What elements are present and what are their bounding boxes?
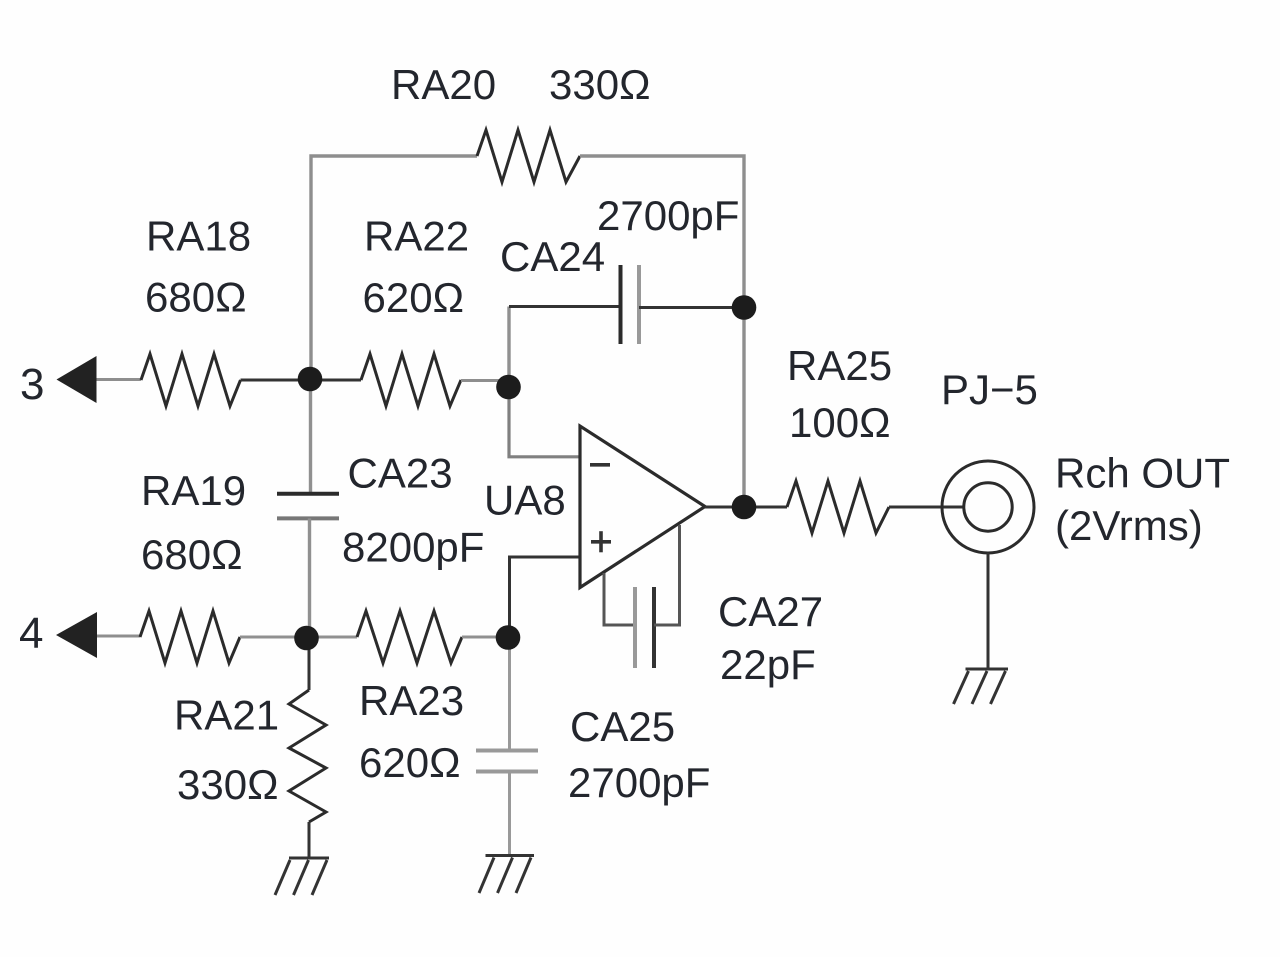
- wire RA21 to ground: [308, 822, 311, 858]
- node D junction dot: [496, 625, 521, 650]
- wire top feedback left segment: [311, 156, 477, 379]
- svg-text:330Ω: 330Ω: [549, 61, 650, 108]
- jack PJ-5 inner ring: [964, 483, 1012, 531]
- capacitor CA23 bottom plate: [277, 516, 339, 520]
- svg-text:680Ω: 680Ω: [141, 531, 242, 578]
- resistor RA21 vertical: [289, 690, 326, 822]
- wire node C to RA23: [307, 636, 357, 639]
- wire jack to ground: [987, 553, 990, 669]
- svg-text:2700pF: 2700pF: [568, 759, 710, 806]
- wire CA24 right lead to node F: [639, 306, 744, 309]
- node F junction dot: [732, 295, 757, 320]
- svg-text:RA22: RA22: [364, 213, 469, 260]
- ground symbol CA25: [479, 856, 534, 894]
- svg-text:RA18: RA18: [146, 213, 251, 260]
- resistor RA20: [477, 130, 580, 182]
- svg-text:8200pF: 8200pF: [342, 524, 484, 571]
- svg-text:(2Vrms): (2Vrms): [1055, 502, 1203, 549]
- capacitor CA27 left lead: [604, 573, 635, 625]
- wire top feedback right segment: [580, 156, 744, 307]
- wire node B up to CA24: [507, 307, 510, 388]
- svg-text:CA24: CA24: [500, 233, 605, 280]
- wire RA22 to node B: [461, 379, 509, 382]
- wire arrow3 to RA18: [97, 378, 142, 381]
- wire node F down to output node: [742, 308, 745, 508]
- terminal arrow 3: [57, 356, 97, 403]
- svg-text:CA27: CA27: [718, 588, 823, 635]
- node A junction dot: [298, 367, 323, 392]
- resistor RA25: [787, 481, 889, 533]
- capacitor CA24 left plate: [619, 265, 623, 344]
- capacitor CA27 right lead: [654, 525, 680, 625]
- svg-text:22pF: 22pF: [720, 641, 816, 688]
- wire node D up to plus input: [510, 557, 581, 637]
- svg-text:RA20: RA20: [391, 61, 496, 108]
- resistor RA19: [140, 611, 240, 663]
- wire op-amp output to RA25: [705, 506, 787, 509]
- op-amp plus sign: [591, 531, 611, 552]
- svg-text:CA25: CA25: [570, 703, 675, 750]
- svg-text:680Ω: 680Ω: [145, 274, 246, 321]
- node B junction dot: [496, 375, 521, 400]
- node E output junction dot: [732, 495, 757, 520]
- resistor RA22: [361, 354, 461, 406]
- svg-text:PJ−5: PJ−5: [941, 366, 1038, 413]
- svg-text:CA23: CA23: [348, 450, 453, 497]
- resistor RA23: [357, 611, 462, 663]
- svg-text:UA8: UA8: [484, 477, 566, 524]
- terminal arrow 4: [56, 612, 97, 658]
- capacitor CA24 right plate: [637, 265, 641, 344]
- svg-text:RA19: RA19: [141, 467, 246, 514]
- svg-text:4: 4: [19, 609, 43, 658]
- capacitor CA25 bottom plate: [476, 770, 538, 774]
- ground symbol RA21: [275, 858, 329, 895]
- wire arrow4 to RA19: [97, 635, 140, 638]
- capacitor CA23 top plate: [277, 492, 339, 496]
- node C junction dot: [294, 626, 319, 651]
- svg-text:Rch OUT: Rch OUT: [1055, 450, 1230, 497]
- wire RA23 to node D: [462, 636, 508, 639]
- capacitor CA27 left plate: [633, 587, 637, 668]
- capacitor CA25 top lead from node D: [508, 637, 511, 751]
- capacitor CA25 bottom lead: [508, 772, 511, 856]
- svg-text:330Ω: 330Ω: [177, 761, 278, 808]
- ground symbol jack: [954, 669, 1009, 704]
- wire RA18 to node A: [241, 379, 312, 382]
- capacitor CA23 top lead from node A: [309, 379, 312, 494]
- svg-text:3: 3: [20, 360, 44, 409]
- op-amp UA8: [580, 426, 705, 588]
- wire RA19 to node C: [240, 636, 307, 639]
- resistor RA18: [141, 354, 241, 406]
- svg-text:RA21: RA21: [174, 692, 279, 739]
- capacitor CA25 top plate: [476, 749, 538, 753]
- wire node A to RA22: [311, 379, 361, 382]
- op-amp minus sign: [590, 463, 610, 467]
- svg-text:RA25: RA25: [787, 342, 892, 389]
- wire RA25 to jack PJ-5: [889, 506, 963, 509]
- capacitor CA23 bottom lead to node C: [308, 518, 311, 637]
- wire CA24 left lead: [509, 305, 621, 308]
- svg-text:RA23: RA23: [359, 677, 464, 724]
- svg-text:620Ω: 620Ω: [363, 274, 464, 321]
- capacitor CA27 right plate: [652, 587, 656, 668]
- wire node B down to minus input: [509, 387, 580, 457]
- wire node C to RA21: [308, 638, 311, 690]
- jack PJ-5 outer ring: [942, 461, 1034, 553]
- svg-text:100Ω: 100Ω: [789, 399, 890, 446]
- svg-text:620Ω: 620Ω: [359, 739, 460, 786]
- svg-text:2700pF: 2700pF: [597, 192, 739, 239]
